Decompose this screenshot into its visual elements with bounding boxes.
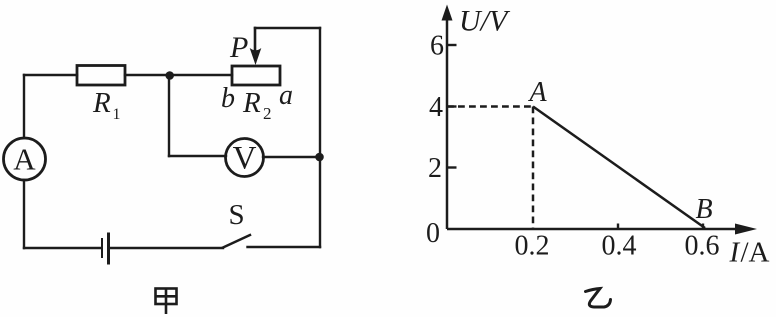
svg-text:P: P [229,31,248,64]
svg-text:1: 1 [113,106,121,123]
y tick 4 [447,105,457,107]
label I/A [729,237,770,269]
svg-text:6: 6 [430,31,444,62]
wiper P arrow [250,28,262,65]
wire to voltmeter left [169,155,226,157]
wire top-left horizontal [24,74,77,76]
x tick 0.4 [617,224,619,230]
svg-text:U/V: U/V [459,5,511,38]
y tick 2 [447,166,457,168]
wire node down to voltmeter branch [168,75,170,156]
svg-text:B: B [695,194,712,225]
dashed line vertical from A [532,107,535,230]
label Yi (Chinese) [586,289,611,308]
svg-text:a: a [279,80,293,111]
svg-text:b: b [221,83,235,114]
svg-text:0.2: 0.2 [515,231,550,262]
label R2 [242,87,272,123]
y axis [446,20,449,229]
label R1 [92,87,121,123]
wire wiper to top right [255,27,320,29]
wire left vertical lower [23,180,25,248]
y tick 6 [447,44,457,46]
wire left vertical upper [23,75,25,138]
node junction dot R1/R2 [165,71,174,80]
svg-text:0.6: 0.6 [685,231,720,262]
svg-text:R: R [242,87,261,119]
label Jia (Chinese) [156,289,177,315]
svg-text:2: 2 [263,104,272,123]
potentiometer R2 [232,66,280,85]
battery short plate [101,239,103,257]
svg-text:A: A [13,142,36,177]
wire R1 to node [125,74,169,76]
resistor R1 [77,66,125,86]
voltmeter V circle [226,139,264,177]
svg-text:I: I [729,237,741,269]
x tick 0.6 [702,224,704,230]
y axis arrowhead [442,5,453,21]
ammeter A circle [4,138,46,180]
svg-text:0.4: 0.4 [602,231,637,262]
wire voltmeter right to right rail [263,156,320,158]
wire bottom left [24,247,101,249]
svg-text:R: R [92,87,111,119]
label U/V [459,5,511,38]
svg-text:V: V [233,141,257,177]
wire right vertical [319,28,321,247]
x axis arrowhead [735,224,757,235]
wire switch to bottom right corner [248,246,321,248]
svg-text:4: 4 [429,92,443,123]
wire node to R2 [169,74,232,76]
battery long plate [107,234,110,263]
svg-text:/A: /A [741,237,770,269]
svg-text:0: 0 [426,218,440,249]
switch S blade [223,235,250,248]
x axis [447,228,740,231]
line A to B [533,107,705,229]
dashed line horizontal to A [447,105,532,108]
svg-text:S: S [229,199,245,231]
svg-text:A: A [527,77,547,108]
svg-text:2: 2 [428,153,442,184]
wire battery to switch [110,247,223,249]
node junction dot right rail [315,153,324,162]
